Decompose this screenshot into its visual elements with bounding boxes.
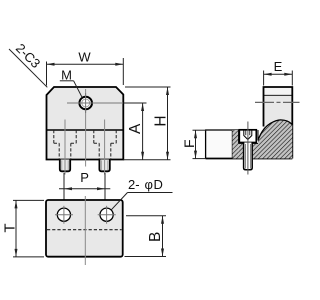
dimension P [63,173,65,200]
dimension F [193,129,207,131]
svg-text:F: F [181,139,197,148]
hatch region right of screw incl. dome [252,120,292,159]
svg-text:D: D [154,177,163,192]
bottom view vertical centerline [84,196,86,265]
leader line of 2-phiD to right hole [111,193,127,210]
side view wall top band line [264,94,293,96]
bottom view hidden dashed line [47,229,122,231]
side flange outline [206,130,239,159]
side view wall outline [264,87,293,159]
screw shaft (side view) [244,143,253,170]
stud thread lines left [61,160,63,170]
section boundary line [231,130,233,159]
svg-text:T: T [1,223,18,232]
right screw centerline front view [104,120,106,175]
right stud screw (front view) [99,160,109,172]
dimension E [263,71,265,86]
bottom hole left [57,208,70,221]
screw centerline (side view) [247,122,249,175]
svg-text:B: B [147,232,164,242]
bottom view box [46,200,123,257]
dimension A [123,102,146,104]
dome curve outline [258,120,292,140]
tapped hole M [79,97,92,110]
left stud screw (front view) [60,160,70,172]
flange bottom edge [206,158,244,160]
svg-text:H: H [152,115,169,126]
side view wall upper (gray, unsectioned) [264,87,293,129]
svg-text:2-: 2- [128,177,140,192]
hidden counterbore right (dashed) [94,130,116,160]
hatch region below head left [239,143,244,158]
label 2-C3 with leader [9,49,47,87]
front flange top edge line [47,129,124,131]
dimension T [13,199,44,201]
hatch region left of counterbore [232,130,238,159]
svg-text:W: W [78,50,91,65]
main vertical centerline front view [85,89,87,167]
left screw centerline front view [64,120,66,175]
svg-text:P: P [80,170,89,185]
dimension W [47,58,124,86]
side view wall top light band [264,88,292,95]
svg-text:φ: φ [145,177,153,192]
bottom hole right [100,208,113,221]
chain centerline of M hole (side view) [255,101,300,103]
svg-text:A: A [127,123,144,134]
front view body [47,87,124,160]
screw thread inner lines [244,144,246,169]
svg-text:E: E [274,59,283,74]
hole M horizontal centerline [67,102,123,104]
dimension B [126,215,166,217]
hidden counterbore left (dashed) [54,130,76,160]
socket recess [244,131,252,140]
hole M vertical centerline through circle [85,93,87,113]
dimension H [125,86,171,88]
counterbore walls [238,130,240,143]
screw head (side view) [239,130,256,143]
side view flange left part (white) [206,130,233,159]
svg-text:M: M [61,67,72,82]
stud thread lines right [100,160,102,170]
